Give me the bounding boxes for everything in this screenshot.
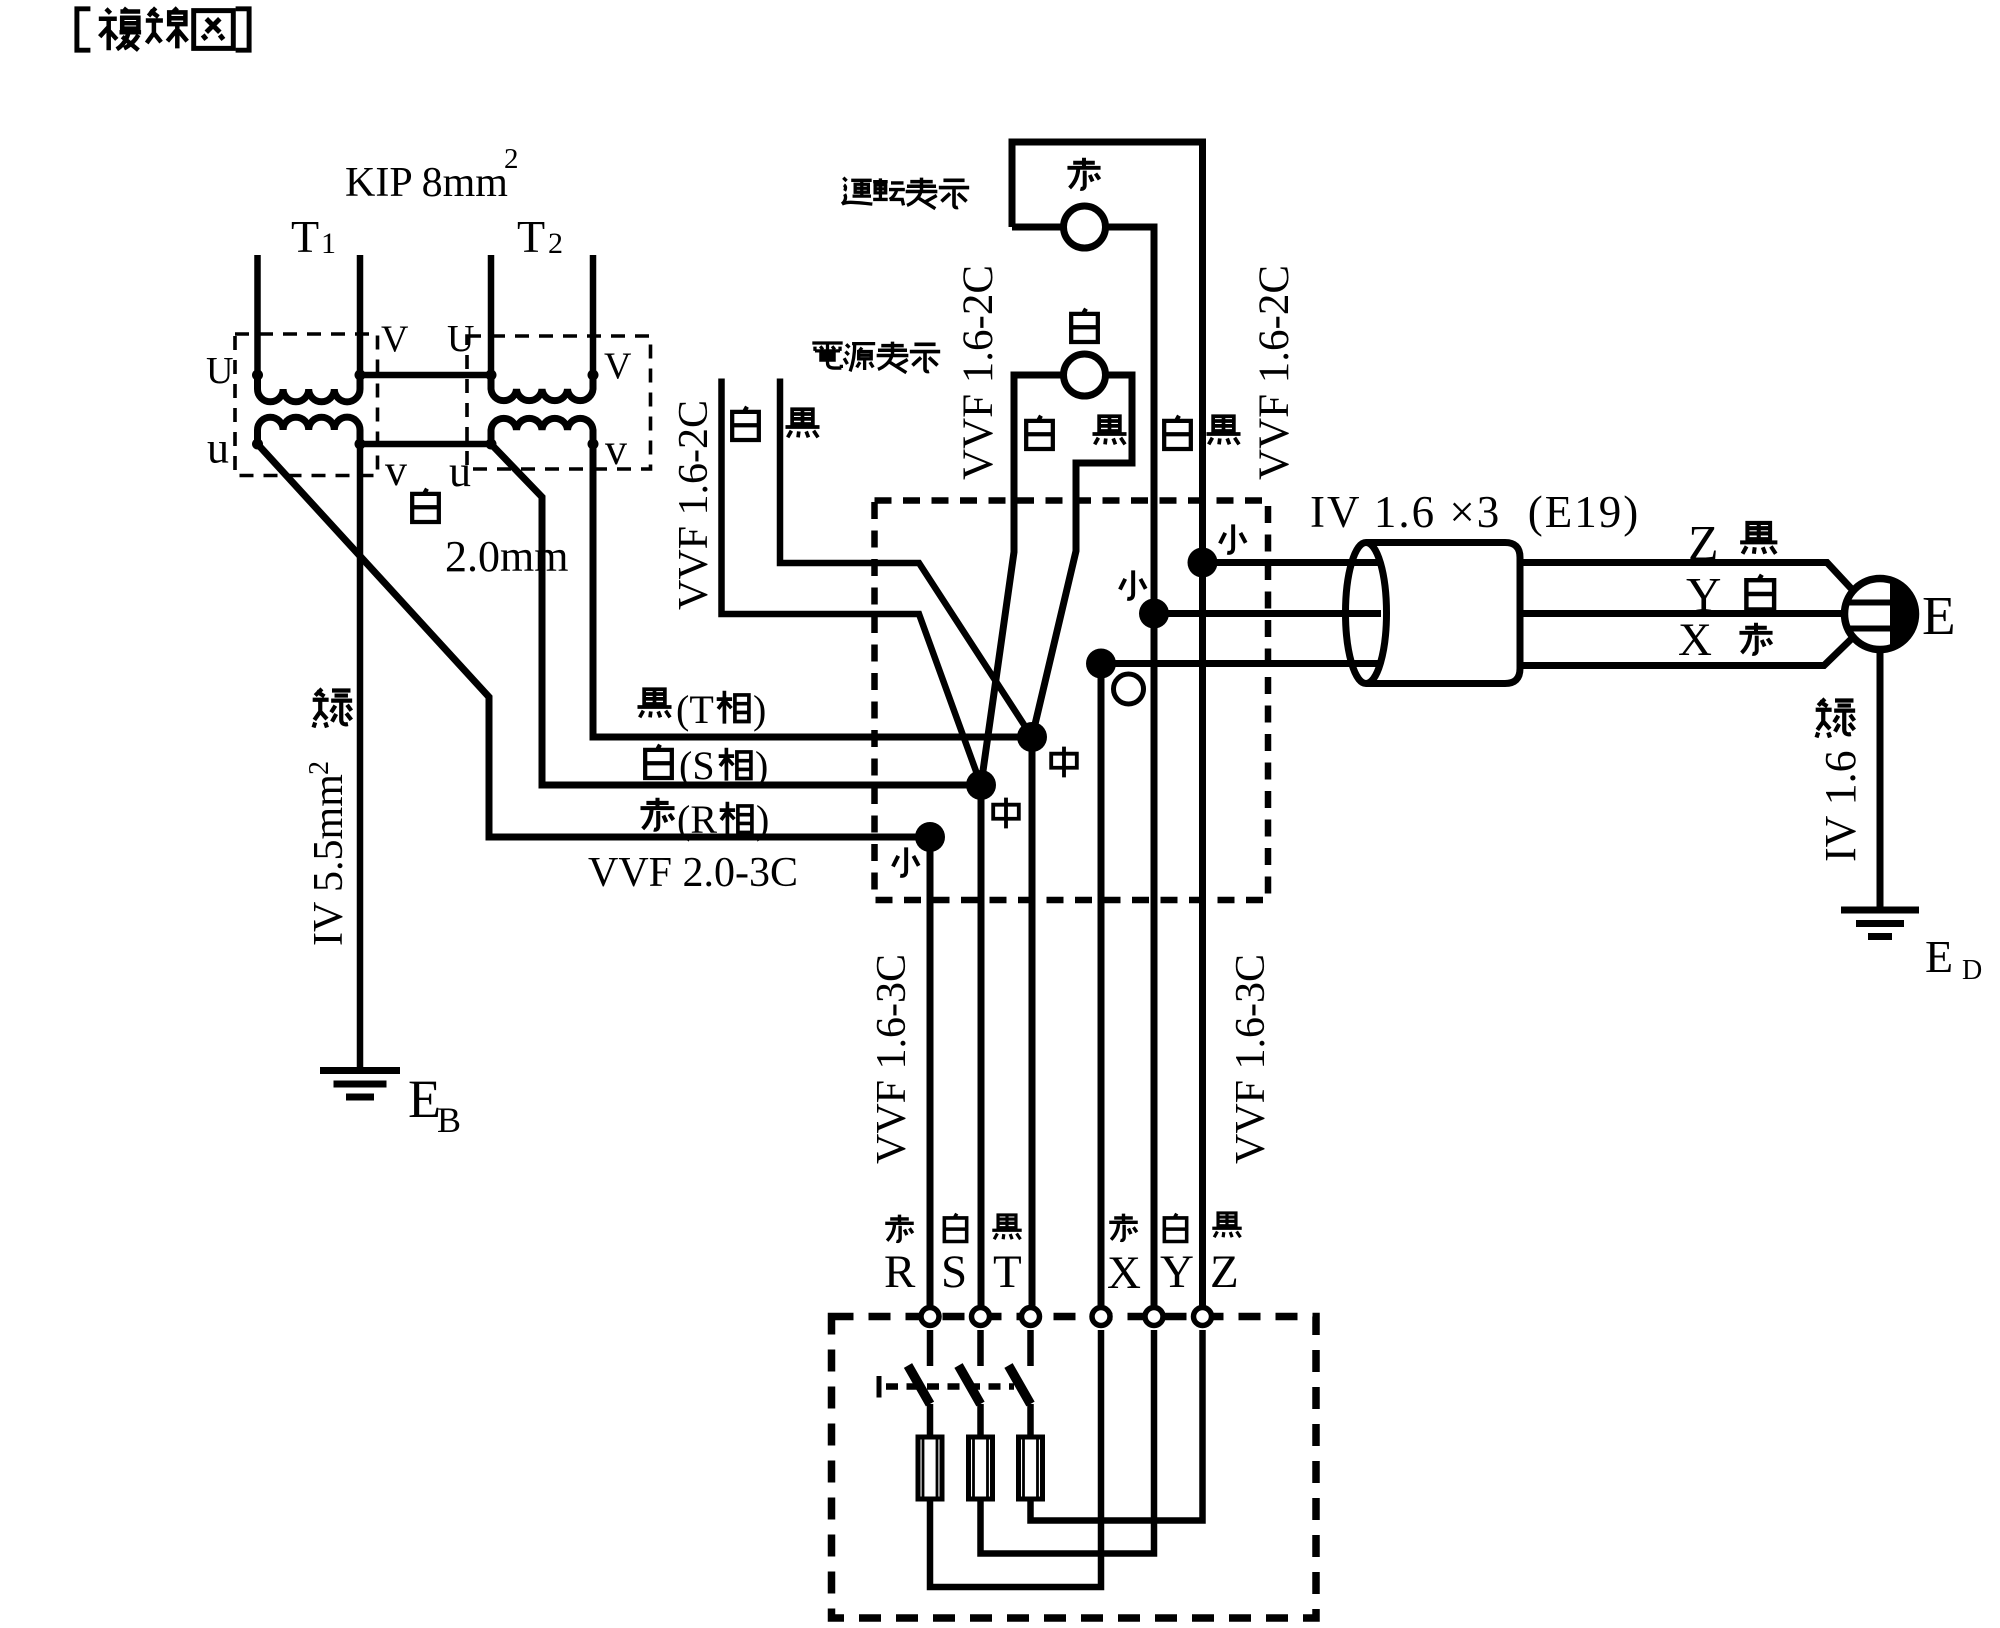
svg-text:): ) — [755, 743, 768, 788]
svg-text:X: X — [1107, 1247, 1141, 1299]
svg-text:E: E — [1925, 931, 1953, 982]
svg-text:IV 1.6 ×3 (E19): IV 1.6 ×3 (E19) — [1310, 487, 1640, 537]
svg-text:VVF 1.6-2C: VVF 1.6-2C — [955, 265, 1002, 480]
svg-text:VVF 2.0-3C: VVF 2.0-3C — [588, 850, 798, 896]
svg-text:V: V — [381, 319, 409, 361]
svg-text:U: U — [206, 350, 233, 392]
svg-text:2.0mm: 2.0mm — [445, 532, 568, 581]
svg-text:IV 1.6: IV 1.6 — [1816, 750, 1865, 862]
svg-text:T: T — [517, 211, 545, 262]
svg-text:V: V — [604, 346, 632, 388]
svg-text:VVF 1.6-3C: VVF 1.6-3C — [869, 954, 915, 1164]
svg-text:(T: (T — [676, 687, 714, 732]
svg-text:v: v — [385, 446, 407, 495]
svg-text:(S: (S — [679, 743, 715, 788]
svg-text:VVF 1.6-3C: VVF 1.6-3C — [1228, 954, 1274, 1164]
svg-text:X: X — [1678, 614, 1712, 666]
svg-text:(R: (R — [677, 797, 717, 842]
svg-text:Y: Y — [1160, 1246, 1194, 1298]
svg-text:2: 2 — [504, 143, 519, 175]
svg-text:VVF 1.6-2C: VVF 1.6-2C — [671, 400, 717, 610]
svg-text:Z: Z — [1210, 1246, 1239, 1298]
svg-text:U: U — [447, 318, 474, 360]
svg-text:VVF 1.6-2C: VVF 1.6-2C — [1251, 265, 1298, 480]
svg-text:T: T — [993, 1246, 1022, 1298]
svg-text:D: D — [1962, 955, 1982, 986]
svg-text:B: B — [437, 1100, 461, 1140]
svg-text:S: S — [941, 1246, 967, 1298]
svg-text:): ) — [753, 687, 766, 732]
svg-text:T: T — [291, 211, 319, 262]
svg-text:u: u — [449, 447, 471, 496]
svg-text:u: u — [207, 424, 229, 473]
svg-text:Z: Z — [1688, 515, 1719, 571]
svg-text:KIP 8mm: KIP 8mm — [345, 160, 508, 206]
svg-text:E: E — [1922, 585, 1956, 646]
svg-text:1: 1 — [321, 227, 336, 260]
svg-text:): ) — [756, 797, 769, 842]
svg-text:2: 2 — [304, 761, 335, 775]
svg-text:IV 5.5mm: IV 5.5mm — [306, 774, 352, 946]
svg-text:2: 2 — [548, 227, 563, 260]
svg-text:v: v — [605, 425, 627, 474]
svg-text:R: R — [884, 1246, 916, 1298]
